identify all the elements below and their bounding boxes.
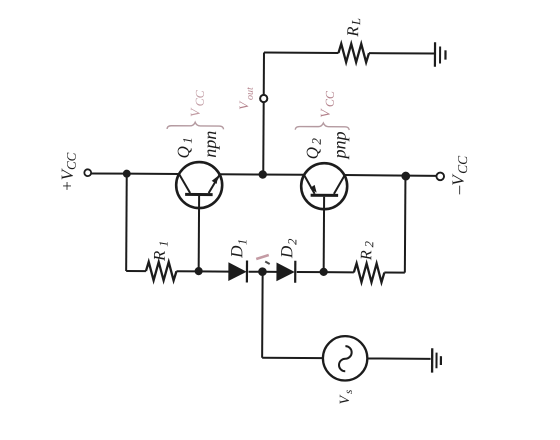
wire Q2 base xyxy=(323,197,325,272)
ground top xyxy=(434,42,447,67)
wire R2 to riser xyxy=(384,272,404,274)
wire R1 branch vertical xyxy=(125,174,128,271)
resistor R2 xyxy=(354,263,385,282)
terminal -VCC xyxy=(436,173,444,181)
svg-text:pnp: pnp xyxy=(329,131,349,160)
brace left xyxy=(167,122,224,129)
annotation dark tick xyxy=(265,262,270,265)
annotation pink dash xyxy=(256,255,269,259)
wire main rail Q2 to -VCC xyxy=(345,174,437,177)
wire top rail left segment xyxy=(264,52,338,54)
wire output vertical lower xyxy=(262,103,264,175)
transistor Q2 xyxy=(301,163,347,209)
source Vs xyxy=(323,336,368,381)
wire node to R2 xyxy=(324,271,354,273)
ground bottom xyxy=(431,348,442,372)
wire source to ground xyxy=(367,357,430,359)
wire main rail Q1 to Q2 xyxy=(220,173,304,176)
terminal Vout xyxy=(260,95,267,102)
node dot left rail xyxy=(123,170,131,178)
node dot output rail xyxy=(259,170,267,178)
wire D2 to node xyxy=(297,271,324,273)
diode D2 xyxy=(276,261,296,283)
transistor Q1 xyxy=(176,162,222,208)
node dot right rail xyxy=(401,172,410,181)
svg-text:npn: npn xyxy=(200,131,220,158)
node dot diode junction xyxy=(258,267,267,276)
wire R2 riser vertical xyxy=(404,176,407,273)
wire D1 to node xyxy=(249,271,259,273)
brace right xyxy=(295,123,349,130)
wire node to D2 xyxy=(262,271,276,273)
wire RL to ground xyxy=(369,52,434,54)
wire main rail +VCC to Q1 xyxy=(91,172,179,175)
wire source branch vertical xyxy=(261,272,264,358)
diode D1 xyxy=(228,260,248,282)
wire source branch horizontal xyxy=(262,357,323,359)
node dot Q2 base xyxy=(320,268,328,276)
wire R1 branch horizontal xyxy=(126,270,146,272)
wire Q1 base xyxy=(198,196,200,271)
resistor RL xyxy=(338,44,369,63)
resistor R1 xyxy=(146,262,177,281)
wire output vertical upper xyxy=(263,53,265,95)
terminal +VCC xyxy=(84,169,91,176)
node dot Q1 base xyxy=(195,267,203,275)
wire R1 to node xyxy=(176,270,198,272)
wire node to D1 xyxy=(199,270,229,272)
